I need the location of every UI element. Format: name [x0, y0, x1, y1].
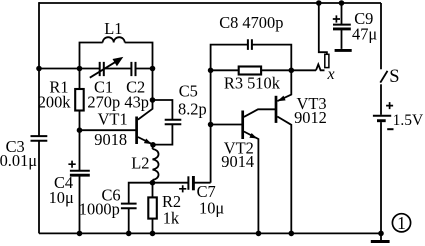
svg-text:10μ: 10μ — [199, 199, 224, 218]
svg-text:47μ: 47μ — [352, 24, 377, 43]
svg-text:S: S — [389, 67, 399, 87]
svg-text:0.01μ: 0.01μ — [0, 151, 37, 170]
svg-text:C5: C5 — [179, 82, 198, 101]
svg-text:9012: 9012 — [294, 108, 327, 127]
svg-text:x: x — [327, 66, 335, 83]
svg-text:9014: 9014 — [221, 152, 254, 171]
svg-text:1.5V: 1.5V — [393, 112, 424, 129]
svg-text:1000p: 1000p — [79, 199, 120, 218]
svg-text:200k: 200k — [38, 93, 72, 112]
svg-text:1k: 1k — [163, 209, 180, 228]
svg-text:L1: L1 — [104, 19, 122, 38]
svg-text:1: 1 — [397, 213, 406, 233]
svg-text:C8 4700p: C8 4700p — [219, 13, 283, 32]
svg-text:8.2p: 8.2p — [178, 100, 207, 119]
svg-text:L2: L2 — [131, 154, 149, 173]
svg-text:R3 510k: R3 510k — [224, 73, 281, 92]
svg-text:10μ: 10μ — [49, 188, 74, 207]
svg-text:9018: 9018 — [94, 130, 127, 149]
svg-text:VT1: VT1 — [98, 110, 128, 129]
svg-text:43p: 43p — [124, 93, 149, 112]
